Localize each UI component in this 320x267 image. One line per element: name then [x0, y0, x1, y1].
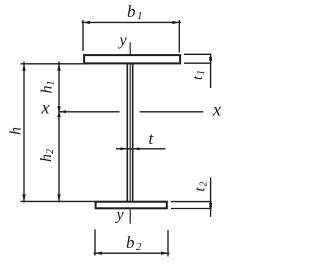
arrow h1 top [57, 64, 60, 71]
arrow t right [133, 147, 140, 150]
extension line t2 lower [171, 208, 212, 210]
dimension line t2 [210, 178, 212, 217]
svg-text:2: 2 [136, 241, 142, 253]
svg-text:b: b [126, 233, 135, 252]
svg-text:x: x [212, 99, 221, 119]
arrow b2 left [95, 252, 102, 255]
arrow t2 bottom [209, 203, 212, 209]
dimension line t1 [210, 54, 212, 89]
svg-text:h: h [8, 127, 25, 135]
extension line top (h, h1 upper datum) [21, 63, 88, 65]
label t1 (rotated) [190, 70, 207, 80]
svg-text:y: y [118, 32, 128, 49]
extension line b2 right [167, 230, 169, 257]
extension line t1 upper [184, 53, 212, 55]
svg-text:y: y [115, 206, 125, 223]
arrow h top [22, 64, 25, 71]
label h1 (rotated) [39, 81, 57, 94]
arrow h2 bottom [57, 194, 60, 201]
label h2 (rotated) [38, 149, 56, 162]
centroid axis y-y vertical centerline [129, 42, 131, 223]
dimension line b2 [94, 252, 170, 254]
dimension line h1 h2 [58, 62, 60, 203]
arrow b2 right [161, 252, 168, 255]
top flange plate [84, 55, 180, 63]
svg-text:2: 2 [199, 182, 210, 187]
svg-text:2: 2 [45, 149, 56, 154]
dimension line t [116, 148, 166, 150]
arrow x axis left [60, 110, 67, 113]
extension line b2 left [94, 229, 96, 255]
arrow h bottom [22, 194, 25, 201]
bottom flange plate [96, 202, 167, 209]
extension line t2 upper [171, 201, 212, 203]
arrow h1 bottom at x axis [57, 106, 60, 113]
svg-text:b: b [127, 2, 136, 21]
web plate right wall [132, 64, 134, 201]
extension line bottom (h, h2 lower datum) [21, 200, 96, 202]
dimension line h [23, 62, 25, 203]
svg-text:1: 1 [46, 81, 57, 86]
centroid axis x-x right segment [140, 111, 204, 113]
svg-text:1: 1 [196, 70, 207, 75]
extension line b1 right [178, 20, 180, 53]
arrow h2 top at x axis [57, 110, 60, 117]
svg-text:h: h [38, 154, 55, 162]
dimension line b1 [82, 21, 182, 23]
arrow t left [121, 147, 128, 150]
dimension b1 label [127, 2, 143, 22]
svg-text:1: 1 [137, 10, 143, 22]
dimension b2 label [126, 233, 142, 253]
label t2 (rotated) [193, 182, 210, 192]
arrow b1 left [83, 21, 90, 24]
web plate left wall [126, 64, 128, 201]
svg-text:h: h [39, 86, 56, 94]
arrow b1 right [172, 21, 179, 24]
centroid axis x-x left segment [59, 111, 120, 113]
arrow t1 bottom [209, 57, 212, 63]
extension line t1 lower [184, 62, 212, 64]
svg-text:x: x [41, 98, 50, 118]
arrow t2 top [209, 202, 212, 208]
arrow t1 top [209, 54, 212, 60]
extension line b1 left [82, 20, 84, 51]
